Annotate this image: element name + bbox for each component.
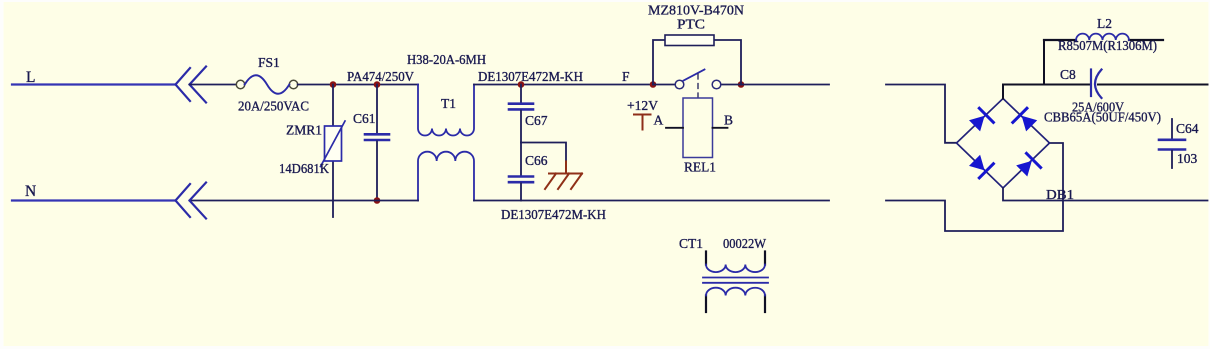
wire fuse to T1 <box>298 84 418 86</box>
svg-text:PTC: PTC <box>677 17 705 32</box>
varistor ZMR1 <box>332 85 334 127</box>
svg-text:103: 103 <box>1177 151 1198 166</box>
svg-text:FS1: FS1 <box>258 55 280 70</box>
svg-text:L2: L2 <box>1097 16 1112 31</box>
svg-text:A: A <box>654 113 664 128</box>
thermistor PTC <box>665 35 714 46</box>
wire L to fuse <box>190 84 237 86</box>
svg-text:PA474/250V: PA474/250V <box>347 69 414 84</box>
wire AC top right <box>886 85 956 143</box>
thermistor PTC branch wires <box>653 40 665 85</box>
svg-text:+12V: +12V <box>627 98 658 113</box>
fuse FS1 <box>236 80 244 88</box>
svg-text:B: B <box>724 113 733 128</box>
wire dot to switch left <box>653 84 676 86</box>
svg-text:C8: C8 <box>1060 67 1076 82</box>
svg-text:R8507M(R1306M): R8507M(R1306M) <box>1058 38 1157 53</box>
relay REL1 <box>683 98 713 158</box>
junction dot C67 top <box>518 81 525 88</box>
pin A <box>666 127 683 129</box>
switch S1 <box>675 80 684 89</box>
wire switch to edge <box>741 84 829 86</box>
svg-text:F: F <box>622 69 630 84</box>
capacitor C66 <box>520 143 522 176</box>
svg-text:CBB65A(50UF/450V): CBB65A(50UF/450V) <box>1044 110 1161 125</box>
svg-text:00022W: 00022W <box>723 236 766 251</box>
pin B <box>713 127 728 129</box>
capacitor C67 <box>520 85 522 103</box>
junction dot switch right <box>738 81 745 88</box>
wire T1 to switch <box>474 84 653 86</box>
diode D4 bottom-right <box>1016 153 1040 176</box>
svg-text:20A/250VAC: 20A/250VAC <box>238 99 309 114</box>
diode D2 top-right <box>1013 108 1037 131</box>
capacitor C64 <box>1171 119 1173 139</box>
svg-text:N: N <box>25 183 36 200</box>
wire N lead <box>12 199 175 201</box>
svg-text:H38-20A-6MH: H38-20A-6MH <box>407 52 486 67</box>
svg-text:C67: C67 <box>525 113 548 128</box>
junction dot ZMR1 top <box>330 81 337 88</box>
wire to ground <box>521 143 566 162</box>
node L chevron port <box>176 67 207 103</box>
node N chevron port <box>176 183 207 219</box>
svg-text:DE1307E472M-KH: DE1307E472M-KH <box>501 207 606 222</box>
inductor T1 bottom winding <box>418 152 474 201</box>
svg-text:DE1307E472M-KH: DE1307E472M-KH <box>478 69 583 84</box>
ground <box>545 162 582 190</box>
inductor L2 <box>1044 39 1076 41</box>
svg-text:T1: T1 <box>441 96 456 111</box>
junction dot C61 bottom <box>374 197 381 204</box>
capacitor C61 <box>376 85 378 134</box>
svg-text:CT1: CT1 <box>679 236 703 251</box>
svg-text:MZ810V-B470N: MZ810V-B470N <box>648 3 744 18</box>
svg-text:C64: C64 <box>1176 121 1199 136</box>
bridge DB1 diamond <box>957 99 1050 189</box>
wire L2 to C8 bus <box>1043 40 1045 85</box>
svg-text:C66: C66 <box>525 153 548 168</box>
wire L lead <box>12 83 175 85</box>
diode D3 bottom-left <box>969 155 993 178</box>
wire switch right to dot <box>721 84 742 86</box>
wire bottom bus <box>190 200 419 202</box>
svg-text:REL1: REL1 <box>684 160 716 175</box>
diode D1 top-left <box>969 108 993 131</box>
wire DB1 output top <box>1003 85 1090 99</box>
svg-text:C61: C61 <box>353 111 376 126</box>
wire AC bottom right <box>886 143 1063 231</box>
svg-text:14D681K: 14D681K <box>279 161 329 176</box>
capacitor C8 <box>1090 70 1092 97</box>
junction dot C61 top <box>374 81 381 88</box>
inductor T1 top winding <box>418 85 474 136</box>
svg-text:ZMR1: ZMR1 <box>286 123 322 138</box>
junction dot switch left <box>650 81 657 88</box>
wire DB1 output bottom <box>1003 188 1208 201</box>
